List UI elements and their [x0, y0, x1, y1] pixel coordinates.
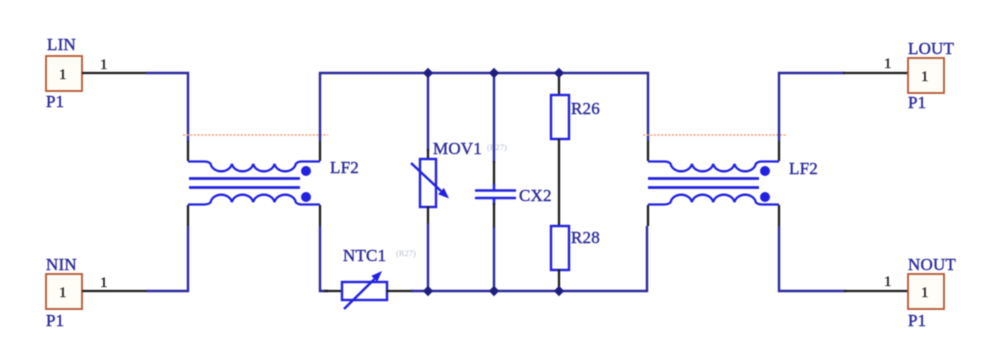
svg-text:(R27): (R27) — [396, 248, 416, 258]
transformer LF2 left: core lines — [189, 179, 300, 188]
svg-text:P1: P1 — [46, 92, 64, 111]
thermistor NTC1 pin lead right (black) — [386, 290, 413, 292]
varistor MOV1 — [411, 159, 449, 207]
thermistor NTC1 — [342, 271, 387, 309]
svg-text:P1: P1 — [46, 311, 64, 330]
junction dot bottom CX — [489, 286, 499, 296]
transformer LF2 left: bottom winding — [188, 195, 320, 205]
svg-text:NTC1: NTC1 — [343, 246, 386, 265]
resistor R26 — [551, 95, 569, 139]
svg-text:LOUT: LOUT — [908, 39, 955, 58]
svg-text:(R27): (R27) — [487, 142, 507, 152]
svg-text:R28: R28 — [571, 228, 600, 247]
svg-text:1: 1 — [884, 56, 892, 72]
svg-text:1: 1 — [59, 285, 67, 301]
svg-text:1: 1 — [59, 67, 67, 83]
thermistor NTC1 pin lead left (black) — [324, 290, 343, 292]
wire MOV1 column top — [427, 73, 429, 151]
capacitor CX2 pin bottom (black) — [493, 203, 495, 228]
junction dot top CX — [489, 68, 499, 78]
transformer LF2 left: polarity dot top — [301, 166, 311, 176]
resistor R28 — [551, 226, 569, 270]
svg-text:LIN: LIN — [47, 35, 76, 54]
varistor MOV1 pin top (black) — [427, 149, 429, 160]
wire LF2 top-right to top rail to LF2(right) — [320, 73, 648, 141]
wire LIN pin lead (black) — [82, 72, 147, 74]
svg-text:P1: P1 — [908, 311, 926, 330]
port LOUT P1 — [908, 39, 955, 112]
capacitor CX2 — [475, 184, 516, 206]
svg-text:LF2: LF2 — [789, 159, 818, 178]
overlay dashed line left transformer — [183, 134, 328, 136]
overlay dashed line right transformer — [643, 134, 787, 136]
svg-text:LF2: LF2 — [330, 158, 359, 177]
port NIN P1 — [46, 255, 82, 330]
wire CX2 column top — [493, 73, 495, 163]
wire CX2 column bottom — [493, 227, 495, 291]
svg-text:1: 1 — [921, 285, 929, 301]
wire LOUT pin lead (black) — [843, 72, 908, 74]
wire NTC1 to bottom rail to LF2(right) — [411, 226, 647, 291]
wire NIN to LF2 bottom-left — [146, 226, 188, 291]
wire MOV1 column bottom — [427, 223, 429, 291]
resistor R26 pin top (black) — [558, 74, 560, 96]
resistor R28 pin bottom (black) — [558, 269, 560, 290]
junction dot bottom R28 — [554, 286, 564, 296]
capacitor CX2 pin top (black) — [493, 161, 495, 185]
svg-text:MOV1: MOV1 — [433, 139, 482, 158]
varistor MOV1 pin bottom (black) — [427, 206, 429, 224]
transformer LF2 right: polarity dot top — [760, 166, 770, 176]
wire LF2 right top to LOUT — [779, 73, 845, 141]
transformer LF2 left: top winding — [188, 162, 320, 172]
wire NIN pin lead (black) — [82, 290, 147, 292]
transformer LF2 right: bottom winding — [648, 195, 779, 205]
svg-text:1: 1 — [884, 274, 892, 290]
port NOUT P1 — [908, 255, 956, 330]
svg-text:1: 1 — [100, 57, 108, 73]
svg-text:P1: P1 — [908, 93, 926, 112]
wire LF2 right bottom to NOUT — [779, 226, 846, 291]
wire NOUT pin lead (black) — [844, 290, 908, 292]
svg-text:R26: R26 — [571, 99, 600, 118]
transformer LF2 right: polarity dot bottom — [760, 192, 770, 202]
transformer LF2 right: core lines — [648, 179, 759, 188]
junction dot top R26 — [554, 68, 564, 78]
port LIN P1 — [46, 35, 82, 111]
svg-text:CX2: CX2 — [519, 186, 552, 205]
transformer LF2 left: polarity dot bottom — [301, 192, 311, 202]
transformer LF2 right: top winding — [648, 162, 779, 172]
svg-text:1: 1 — [100, 275, 108, 291]
svg-text:NOUT: NOUT — [908, 255, 956, 274]
wire LF2 bottom-right down — [320, 226, 328, 291]
transformer LF2 left: black pin stubs — [188, 141, 320, 226]
wire LIN to LF2 top-left — [146, 73, 188, 142]
junction dot bottom MOV — [423, 286, 433, 296]
wire R26 to R28 (black) — [558, 139, 560, 227]
svg-text:1: 1 — [921, 69, 929, 85]
junction dot top MOV — [423, 68, 433, 78]
transformer LF2 right: black pin stubs — [648, 141, 779, 226]
svg-text:NIN: NIN — [46, 255, 77, 274]
